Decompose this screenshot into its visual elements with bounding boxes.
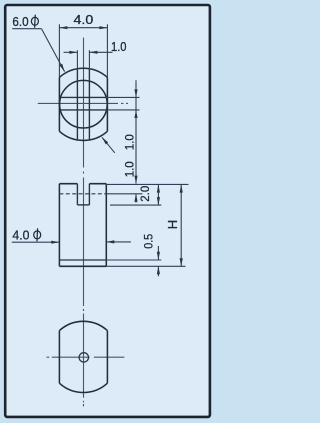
bottom view upper arc	[59, 321, 107, 330]
6.0phi leader diagonal	[42, 29, 65, 72]
bottom view left flat	[58, 331, 60, 384]
4.0 left extension line	[58, 24, 60, 77]
band dim line across band	[135, 97, 137, 110]
4.0phi right tail	[106, 241, 131, 243]
slot depth dim lower line	[135, 194, 137, 203]
slot depth dim lower arrowhead (up)	[134, 194, 137, 202]
outer background	[0, 0, 215, 423]
bottom view right flat	[106, 331, 108, 384]
inner panel background	[6, 6, 209, 416]
4.0phi right arrowhead (left, at right face)	[106, 240, 114, 243]
top view horizontal centerline	[38, 102, 128, 104]
slot right vertical extension above	[88, 50, 90, 69]
border frame	[5, 5, 210, 417]
2.0 bottom arrowhead	[157, 197, 160, 205]
top view upper arc (phi6)	[59, 68, 107, 77]
0.5 lower arrowhead (up)	[157, 266, 160, 274]
band dim upper line	[135, 80, 137, 97]
H dim line	[180, 185, 182, 267]
4.0 right extension line	[106, 24, 108, 77]
bottom view lower arc	[59, 383, 107, 392]
0.5 lower line	[157, 266, 159, 276]
1.0 right tail	[89, 51, 112, 53]
notch right edge	[88, 184, 90, 205]
notch bottom extension	[110, 204, 161, 206]
front view bottom edge	[59, 265, 106, 267]
1.0 left arrowhead	[69, 51, 77, 54]
front view top edge left segment	[59, 183, 77, 185]
top view right flat	[106, 77, 108, 131]
svg-text:4.0: 4.0	[12, 228, 29, 243]
slot upper chord extension	[106, 96, 140, 98]
1.0 left tail	[64, 51, 78, 53]
slot left vertical line	[76, 69, 78, 140]
step line	[59, 259, 106, 261]
hidden slot line extension	[106, 193, 142, 195]
front view left edge	[58, 184, 60, 267]
bottom view center hole	[79, 353, 88, 362]
slot lower chord extension	[106, 109, 140, 111]
band dim lower arrowhead (up)	[134, 110, 137, 118]
4.0 left arrowhead	[59, 26, 67, 29]
phi glyph of 6.0phi	[31, 15, 38, 28]
phi6 second leader arrowhead	[102, 137, 108, 144]
notch left edge	[76, 184, 78, 205]
6.0phi underline	[12, 28, 41, 30]
top view left flat	[58, 77, 60, 131]
0.5 upper line	[157, 246, 159, 260]
band dim long line down to front view	[135, 110, 137, 184]
slot lower chord line	[61, 109, 106, 111]
top edge extension	[106, 183, 188, 185]
band dim upper arrowhead (down)	[134, 89, 137, 97]
svg-text:1.0: 1.0	[111, 39, 127, 54]
slot right vertical line	[88, 69, 90, 140]
svg-text:1.0: 1.0	[123, 134, 137, 150]
top view inner circle (phi4 shaft)	[60, 80, 108, 128]
4.0phi arrowhead (right, at left face)	[51, 241, 59, 244]
svg-text:6.0: 6.0	[12, 14, 28, 29]
front view right edge	[105, 184, 107, 267]
top view lower arc (phi6)	[59, 131, 107, 140]
1.0 right arrowhead	[89, 51, 97, 54]
notch bottom	[77, 204, 89, 206]
H bottom arrowhead	[180, 258, 183, 266]
4.0phi underline	[12, 241, 60, 243]
2.0 dim line	[157, 185, 159, 206]
step line extension	[106, 259, 161, 261]
bottom edge extension	[106, 265, 185, 267]
svg-text:4.0: 4.0	[74, 12, 94, 27]
0.5 upper arrowhead (down)	[157, 252, 160, 260]
phi6 second leader (lower right arc)	[102, 137, 115, 153]
slot depth dim arrowhead (down, at front view top edge)	[134, 176, 137, 184]
4.0 dimension line	[59, 27, 107, 29]
svg-text:0.5: 0.5	[142, 234, 156, 249]
4.0 right arrowhead	[99, 26, 107, 29]
svg-text:H: H	[165, 220, 180, 229]
H top arrowhead	[180, 185, 183, 193]
slot upper chord line	[61, 96, 106, 98]
6.0phi leader arrowhead	[59, 64, 64, 72]
svg-text:2.0: 2.0	[138, 186, 152, 202]
svg-text:1.0: 1.0	[123, 161, 137, 177]
phi glyph of 4.0phi	[34, 228, 41, 241]
front view top edge right segment	[89, 183, 106, 185]
2.0 top arrowhead	[157, 185, 160, 193]
bottom view horizontal centerline	[47, 356, 125, 358]
hidden slot line (dashed)	[59, 193, 106, 195]
vertical centerline (all views)	[83, 38, 85, 407]
slot left vertical extension above	[76, 50, 78, 69]
